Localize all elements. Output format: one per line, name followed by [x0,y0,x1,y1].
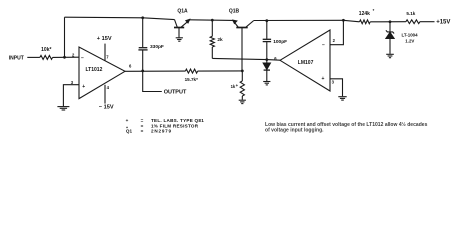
svg-text:TEL. LABS. TYPE Q81: TEL. LABS. TYPE Q81 [151,118,204,123]
node: 100pF top [265,19,268,22]
wire: 15.7k to junction [198,70,243,72]
wire: top rail Q1B to LM107 [254,19,344,21]
svg-text:Q1A: Q1A [177,8,188,14]
svg-text:−: − [322,43,325,49]
U2 pin2 stub [330,20,343,44]
svg-text:*: * [373,8,375,13]
svg-text:124k: 124k [359,11,370,17]
wire+label OUTPUT branch [143,71,162,92]
svg-text:Q1: Q1 [126,129,133,134]
svg-text:+: + [82,84,85,90]
resistor R2 15.7k* [185,69,197,73]
svg-text:− 15V: − 15V [99,104,114,110]
node: 330pF top [141,16,144,19]
resistor R3 2k [211,20,213,36]
node: output branch [141,70,144,73]
node: 15.7k/1k/base junction [241,70,244,73]
svg-text:330pF: 330pF [150,44,164,50]
diode D1 clamp [266,60,268,64]
wire: U1 output [125,70,185,72]
capacitor C1 330pF [142,18,144,47]
U1 pin3 wire to ground [63,85,79,107]
resistor R4 1k [240,81,244,96]
svg-text:Q1B: Q1B [229,9,240,15]
wire: input to 10k [27,56,40,58]
svg-text:2: 2 [72,52,75,57]
wire: top rail left segment [65,17,175,19]
resistor R6 5.1k [406,20,420,24]
wire: 124k to ref node [370,21,406,23]
svg-text:2k: 2k [217,37,223,43]
node: summing junction [63,56,66,59]
svg-text:−: − [81,55,84,61]
ground: U2 pin3 [338,96,346,98]
svg-text:+: + [126,118,129,123]
node: pin2/124k junction [342,19,345,22]
svg-text:4: 4 [107,85,110,90]
zener LT1004 1.2V [389,22,391,32]
resistor R1 10k* input [40,55,53,59]
ground: U1 pin3 [57,106,69,108]
wire: summing node up [64,17,66,57]
ground: 1k [239,99,246,101]
svg-text:15.7k*: 15.7k* [185,77,198,82]
wire: 5.1k to +15V [420,21,435,23]
svg-text:+15V: +15V [436,20,450,26]
svg-text:LT-1004: LT-1004 [402,32,419,37]
svg-text:OUTPUT: OUTPUT [164,89,187,95]
op-amp U2 LM107 [280,30,330,91]
svg-text:+: + [236,83,239,88]
svg-text:=: = [141,118,144,123]
svg-text:100pF: 100pF [273,39,287,45]
transistor Q1B [233,20,238,27]
svg-text:7: 7 [106,54,109,59]
op-amp U1 LT1012 [79,47,125,99]
svg-text:+ 15V: + 15V [97,36,112,42]
node: 2k top [211,19,214,22]
wire: 10k to summing node to pin2 [53,56,79,58]
node: diode junction [265,58,268,61]
svg-text:=: = [141,129,144,134]
node: reference [389,20,392,23]
svg-text:3: 3 [71,80,74,85]
svg-text:3: 3 [332,80,335,85]
wire: top rail Q1A to Q1B [190,19,233,22]
transistor Q1A [175,20,178,28]
resistor R5 124k* [360,20,371,24]
U1 pin4 -15V [104,85,106,104]
capacitor C2 100pF [266,21,268,39]
svg-text:LT1012: LT1012 [86,67,103,73]
svg-text:6: 6 [129,64,132,69]
ground: LT1004 [386,53,394,55]
svg-text:5.1k: 5.1k [406,11,415,16]
svg-text:of voltage input logging.: of voltage input logging. [265,127,324,133]
ground: diode [263,81,270,83]
svg-text:2N2979: 2N2979 [151,129,172,134]
svg-text:LM107: LM107 [298,60,314,66]
wire: 2k bottom to LM107 output [212,58,280,60]
svg-text:2: 2 [333,38,336,43]
svg-text:+: + [322,76,325,82]
U2 pin3 stub to ground [330,79,343,97]
svg-text:1.2V: 1.2V [405,39,414,44]
svg-text:10k*: 10k* [41,47,51,53]
ground: Q1A base [176,37,183,39]
svg-text:INPUT: INPUT [9,55,24,61]
U1 pin7 +15V [104,44,106,61]
